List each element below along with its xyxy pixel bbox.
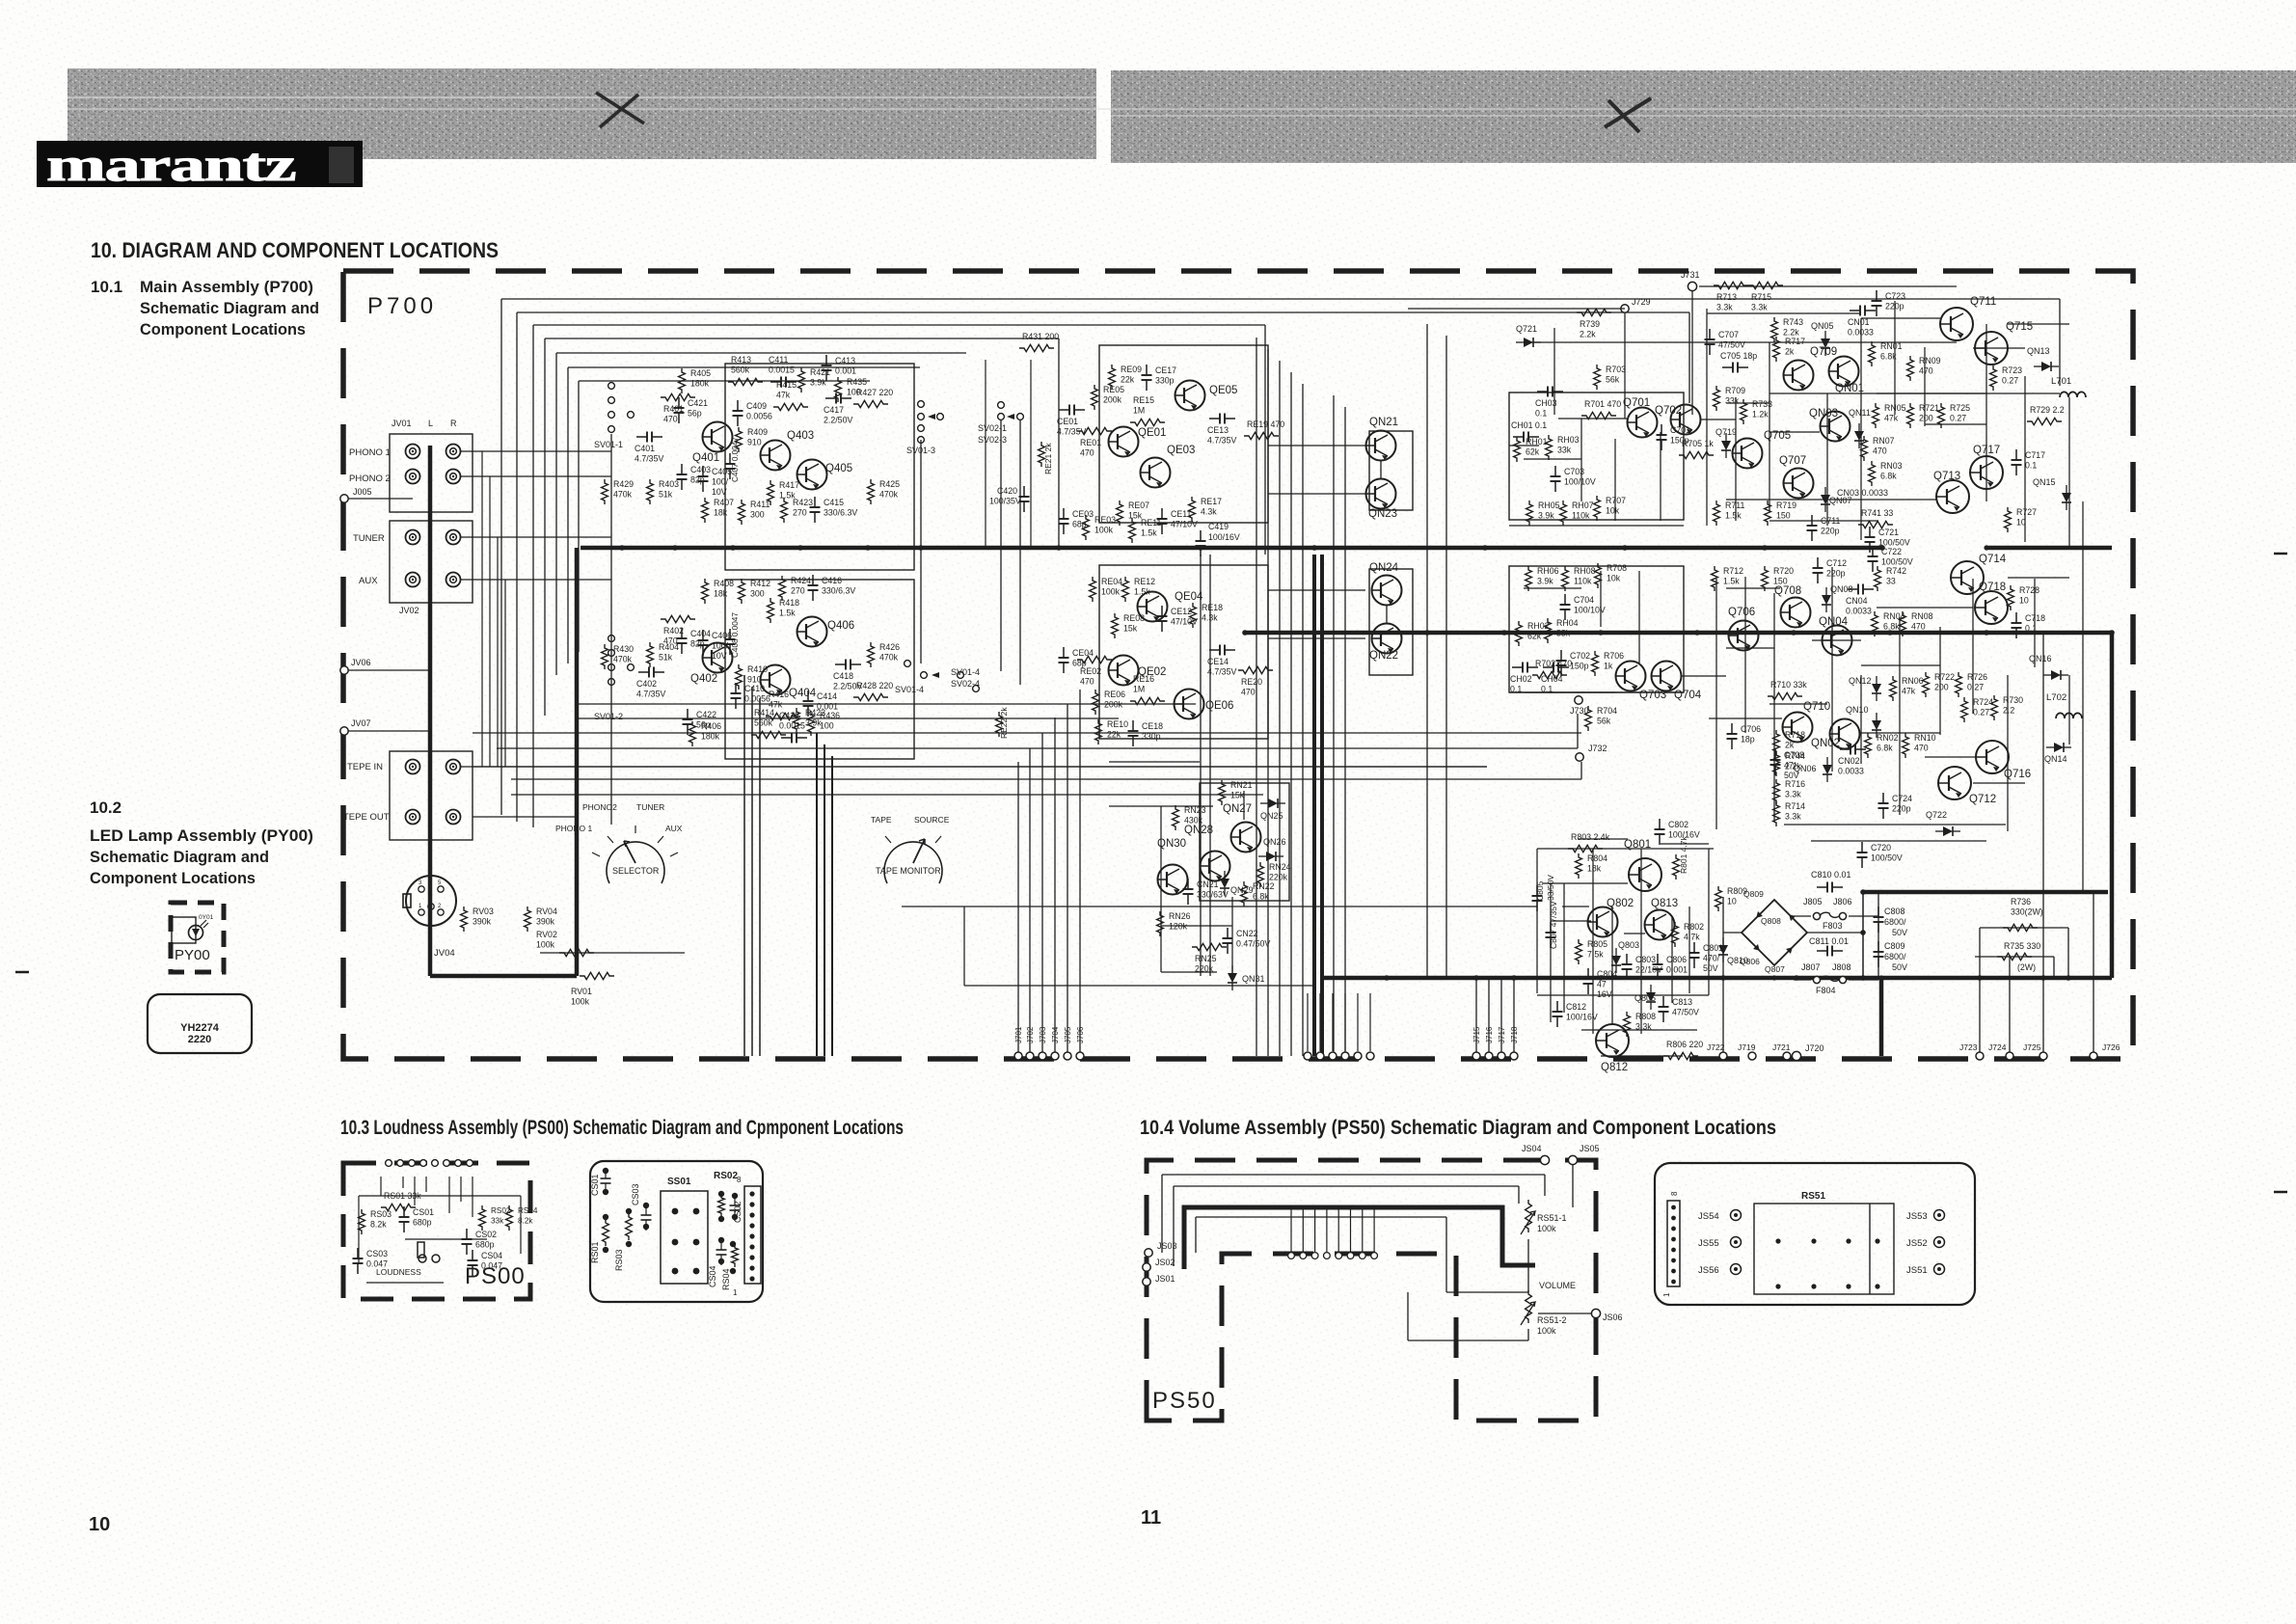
svg-text:marantz: marantz — [46, 138, 296, 190]
svg-text:47k: 47k — [1902, 687, 1916, 696]
svg-text:10V: 10V — [712, 651, 727, 661]
junction — [1511, 975, 1517, 981]
svg-text:330/63V: 330/63V — [1197, 890, 1229, 900]
resistor RE04 — [1090, 577, 1123, 602]
svg-text:RN26: RN26 — [1169, 911, 1191, 921]
resistor R418 — [768, 598, 800, 623]
wire — [1196, 1216, 1446, 1218]
svg-text:SV01-2: SV01-2 — [594, 712, 623, 721]
resistor RH01 — [1514, 437, 1548, 462]
svg-text:C803: C803 — [1635, 955, 1656, 964]
svg-text:C409: C409 — [746, 401, 767, 411]
svg-text:F804: F804 — [1816, 986, 1836, 995]
wire — [1536, 849, 1538, 993]
wire — [366, 1282, 444, 1284]
capacitor C812 — [1553, 1001, 1598, 1027]
svg-text:C810 0.01: C810 0.01 — [1811, 870, 1851, 880]
wire — [473, 766, 1487, 768]
capacitor C805 — [1532, 875, 1556, 911]
resistor R404 — [647, 642, 680, 667]
wire — [1079, 690, 1081, 1056]
resistor R744 — [1773, 751, 1806, 776]
svg-text:SELECTOR: SELECTOR — [612, 866, 660, 876]
transistor Q402 — [690, 643, 733, 686]
svg-text:47k: 47k — [776, 391, 791, 400]
capacitor C421 — [674, 397, 709, 423]
resistor RE12 — [1122, 577, 1156, 602]
svg-text:RN25: RN25 — [1195, 954, 1217, 963]
capacitor C702 — [1556, 650, 1591, 676]
resistor R727 — [2005, 507, 2038, 532]
svg-text:56k: 56k — [1597, 717, 1611, 726]
svg-text:C712: C712 — [1826, 558, 1847, 568]
capacitor C404 — [677, 628, 712, 654]
svg-text:Q718: Q718 — [1979, 582, 2006, 593]
svg-text:TUNER: TUNER — [636, 802, 664, 812]
svg-text:Q806: Q806 — [1740, 957, 1760, 966]
wire — [1925, 423, 1986, 425]
svg-text:0.1: 0.1 — [1535, 409, 1547, 419]
resistor R413 — [728, 355, 763, 386]
wire — [1290, 372, 1292, 1056]
power bus B2 thick — [1245, 631, 2112, 636]
muting control block outline — [1200, 783, 1289, 901]
connector J717 — [1498, 1026, 1506, 1060]
junction — [1598, 630, 1604, 636]
capacitor CS02cap pcb — [730, 1193, 741, 1221]
svg-text:Q404: Q404 — [789, 688, 817, 699]
resistor RE18 — [1190, 603, 1224, 628]
resistor R730 — [1991, 695, 2024, 720]
wire — [920, 440, 922, 663]
wire — [461, 450, 611, 452]
svg-text:430k: 430k — [1184, 816, 1203, 826]
svg-text:CE14: CE14 — [1207, 657, 1229, 666]
svg-text:47/50V: 47/50V — [1672, 1008, 1699, 1017]
resistor R704 — [1585, 706, 1618, 731]
svg-text:18k: 18k — [1587, 864, 1602, 874]
resistor R709 — [1714, 386, 1746, 411]
connector JS02 — [1143, 1258, 1175, 1271]
connector pin — [1366, 1052, 1374, 1060]
svg-text:R414: R414 — [754, 708, 774, 717]
rotary switch TAPE MONITOR — [871, 815, 950, 883]
resistor R715 — [1748, 282, 1783, 311]
RS51 pcb outline — [1655, 1163, 1975, 1305]
transistor QN30 — [1157, 838, 1188, 895]
wire — [1784, 824, 2006, 826]
diode QN08 — [1822, 584, 1853, 612]
resistor R710 — [1768, 680, 1807, 700]
capacitor CN22 — [1223, 928, 1271, 954]
resistor R424 — [779, 576, 812, 601]
connector pin — [1341, 1052, 1349, 1060]
svg-text:470/: 470/ — [1703, 954, 1720, 963]
svg-text:TEPE IN: TEPE IN — [347, 762, 383, 772]
wire — [2007, 675, 2009, 831]
svg-text:R725: R725 — [1950, 403, 1970, 413]
svg-text:RV02: RV02 — [536, 930, 557, 939]
svg-text:100/35V: 100/35V — [989, 497, 1021, 506]
wire — [1661, 843, 1709, 845]
junction — [1977, 975, 1983, 981]
svg-text:C723: C723 — [1885, 291, 1905, 301]
diode Q721 — [1516, 324, 1541, 347]
wire — [473, 816, 579, 818]
svg-text:R410: R410 — [747, 664, 768, 674]
svg-text:4.7/35V: 4.7/35V — [635, 454, 663, 464]
capacitor CH03 — [1535, 387, 1563, 419]
resistor RN10 — [1903, 733, 1936, 758]
potentiometer RS51-2 — [1521, 1290, 1567, 1336]
svg-text:Schematic Diagram and: Schematic Diagram and — [140, 299, 319, 317]
wire — [2053, 957, 2055, 978]
svg-text:Q809: Q809 — [1743, 889, 1764, 899]
wire — [1267, 349, 1269, 1056]
svg-text:100/10V: 100/10V — [1564, 477, 1596, 487]
svg-text:47/10V: 47/10V — [1171, 520, 1198, 529]
svg-text:C403: C403 — [690, 465, 711, 474]
diode Q803 — [1611, 940, 1639, 973]
svg-text:33k: 33k — [491, 1217, 504, 1226]
svg-text:QE01: QE01 — [1138, 427, 1166, 439]
resistor RE11 — [1129, 518, 1162, 543]
wire — [504, 580, 506, 767]
wire — [2082, 501, 2084, 892]
connector J703 — [1039, 1026, 1047, 1060]
wire — [1408, 308, 1625, 310]
resistor R708 — [1595, 563, 1628, 588]
capacitor CS04 pcb — [708, 1237, 727, 1287]
resistor R801 — [1673, 836, 1688, 880]
resistor R742 — [1875, 566, 1907, 591]
resistor RE21 — [1039, 442, 1053, 474]
svg-text:RS03: RS03 — [370, 1209, 392, 1219]
junction — [1984, 545, 1988, 550]
wire — [1580, 762, 1582, 779]
resistor RE20 — [1238, 666, 1273, 696]
capacitor C417 — [824, 393, 852, 425]
svg-text:JS04: JS04 — [1522, 1144, 1542, 1153]
capacitor CE04 — [1059, 647, 1094, 673]
resistor RE07 — [1117, 501, 1150, 526]
svg-text:(2W): (2W) — [2017, 962, 2036, 972]
wire — [1518, 1186, 1520, 1204]
wire — [358, 1196, 360, 1263]
svg-text:RE06: RE06 — [1104, 690, 1125, 699]
resistor R436 — [808, 711, 841, 736]
svg-text:AUX: AUX — [359, 576, 378, 586]
capacitor C803 — [1622, 954, 1663, 980]
wire — [1332, 993, 1334, 1051]
svg-text:Q403: Q403 — [787, 430, 814, 442]
YH2274 board outline — [148, 994, 252, 1053]
svg-text:10.4 Volume Assembly (PS50): 10.4 Volume Assembly (PS50) Schematic Di… — [1140, 1117, 1776, 1139]
svg-text:0.047: 0.047 — [366, 1259, 388, 1269]
transistor Q812 — [1596, 1024, 1629, 1073]
wire — [1580, 419, 1582, 501]
connector J721 — [1772, 1042, 1791, 1060]
loudness switch — [418, 1242, 440, 1262]
wire — [2034, 579, 2036, 667]
svg-text:RS51-1: RS51-1 — [1537, 1213, 1567, 1223]
svg-text:L701: L701 — [2051, 376, 2071, 387]
svg-text:QN14: QN14 — [2044, 754, 2067, 764]
svg-text:J805: J805 — [1803, 897, 1823, 907]
wire — [1691, 291, 1693, 415]
svg-text:J705: J705 — [1064, 1026, 1072, 1043]
svg-text:QN05: QN05 — [1811, 321, 1834, 331]
wire — [1973, 782, 2025, 784]
capacitor C412 — [779, 711, 807, 744]
wire — [2068, 675, 2070, 744]
svg-text:SV02-1: SV02-1 — [978, 423, 1007, 433]
transistor Q405 — [797, 460, 853, 490]
wire — [1173, 1186, 1175, 1266]
connector J719 — [1738, 1042, 1756, 1060]
svg-text:4.7/35V: 4.7/35V — [636, 690, 665, 699]
junction — [865, 545, 871, 551]
svg-text:62k: 62k — [1527, 632, 1542, 641]
capacitor CS04 — [468, 1250, 503, 1276]
svg-text:10.1: 10.1 — [91, 278, 122, 296]
resistor RE09 — [1109, 365, 1143, 390]
connector JS03 — [1145, 1241, 1177, 1257]
resistor R428 — [853, 681, 893, 701]
svg-text:RE03: RE03 — [1094, 515, 1116, 525]
svg-text:200k: 200k — [1103, 395, 1122, 405]
transistor Q717 — [1970, 445, 2003, 489]
svg-text:100k: 100k — [536, 940, 555, 950]
svg-text:150: 150 — [1773, 577, 1788, 586]
wire — [1638, 571, 1640, 663]
svg-text:JS51: JS51 — [1906, 1265, 1928, 1276]
svg-text:PHONO 2: PHONO 2 — [349, 474, 391, 484]
svg-text:2k: 2k — [1785, 347, 1795, 357]
svg-text:J706: J706 — [1076, 1026, 1085, 1043]
svg-text:QE05: QE05 — [1209, 385, 1237, 396]
svg-text:L: L — [428, 419, 433, 428]
svg-text:470: 470 — [1914, 744, 1929, 753]
junction — [1482, 545, 1488, 551]
svg-text:R413: R413 — [731, 355, 751, 365]
svg-text:PHONO 1: PHONO 1 — [349, 447, 391, 458]
capacitor C701 — [1657, 424, 1691, 450]
power bus B3 thick — [1322, 976, 2112, 981]
resistor RV01 — [571, 972, 614, 1006]
wire — [1972, 579, 1974, 714]
wire — [1509, 525, 1684, 527]
svg-text:680p: 680p — [413, 1218, 432, 1228]
wire — [1488, 978, 1490, 1056]
svg-text:R405: R405 — [690, 368, 711, 378]
connector J715 — [1472, 1026, 1481, 1060]
transistor QN27 — [1223, 803, 1261, 853]
wire — [1773, 593, 1775, 822]
connector JV06 — [340, 658, 371, 674]
connector pin — [1354, 1052, 1362, 1060]
svg-text:R409: R409 — [747, 427, 768, 437]
resistor R733 — [1741, 399, 1773, 424]
LED lamp JY01 — [172, 914, 214, 943]
resistor RH04 — [1545, 618, 1579, 643]
junction — [1310, 1205, 1314, 1210]
resistor RE19 — [1244, 420, 1284, 440]
svg-text:RH08: RH08 — [1574, 566, 1596, 576]
svg-text:100k: 100k — [1537, 1224, 1556, 1233]
wire — [1578, 838, 1628, 840]
svg-text:QN21: QN21 — [1369, 417, 1398, 428]
diode QN06 — [1794, 757, 1832, 782]
fuse F803 — [1803, 897, 1852, 931]
resistor RS01 pcb — [590, 1214, 608, 1263]
svg-text:4.7k: 4.7k — [1684, 933, 1700, 942]
junction — [1984, 630, 1989, 636]
junction — [1887, 630, 1893, 636]
input jack board JV02 outline — [390, 521, 473, 603]
connector JS52 — [1906, 1237, 1945, 1250]
resistor R421 — [798, 367, 831, 392]
capacitor C406 — [698, 630, 733, 661]
wire — [1524, 341, 1957, 343]
svg-text:L702: L702 — [2046, 692, 2066, 703]
svg-text:R705 1k: R705 1k — [1682, 439, 1714, 448]
resistor RE01 — [1077, 427, 1112, 457]
resistor RN07 — [1861, 436, 1895, 461]
wire — [1019, 420, 1021, 685]
capacitor C724 — [1878, 793, 1913, 819]
svg-text:Q406: Q406 — [827, 620, 854, 632]
resistor R722 — [1923, 672, 1956, 697]
resistor RH07 — [1560, 501, 1594, 526]
equalizer block outline lower — [1099, 565, 1268, 739]
svg-text:300: 300 — [750, 589, 765, 599]
wire — [1264, 325, 1266, 555]
svg-text:100/: 100/ — [712, 477, 729, 487]
svg-text:J726: J726 — [2102, 1042, 2120, 1052]
svg-text:6800/: 6800/ — [1884, 917, 1906, 927]
wire — [1475, 978, 1477, 1056]
wire — [2068, 397, 2070, 548]
wire — [348, 498, 413, 500]
junction — [797, 545, 803, 551]
svg-text:QN02: QN02 — [1811, 738, 1840, 749]
power bus B1 right segment — [1986, 546, 2112, 551]
switch SV01-3 — [906, 401, 943, 455]
svg-text:Q722: Q722 — [1926, 810, 1947, 820]
svg-text:910: 910 — [747, 438, 762, 447]
svg-text:330/6.3V: 330/6.3V — [822, 586, 855, 596]
wire — [533, 324, 1265, 326]
transistor Q813 — [1645, 898, 1679, 940]
svg-text:1M: 1M — [1133, 406, 1145, 416]
wire — [402, 1177, 404, 1188]
svg-text:CE12: CE12 — [1171, 607, 1192, 616]
svg-text:330(2W): 330(2W) — [2011, 907, 2043, 917]
svg-text:F803: F803 — [1823, 921, 1843, 931]
svg-text:0.001: 0.001 — [817, 702, 838, 712]
resistor R411 — [739, 500, 770, 525]
svg-text:RS51: RS51 — [1801, 1191, 1825, 1202]
transistor QN21 — [1366, 417, 1399, 461]
svg-text:330p: 330p — [1155, 376, 1175, 386]
wire — [1924, 347, 1926, 426]
svg-text:220p: 220p — [1892, 804, 1911, 814]
connector JS56 — [1698, 1264, 1742, 1277]
resistor R716 — [1773, 779, 1806, 804]
resistor R713 — [1714, 282, 1748, 311]
wire — [1279, 361, 1281, 1056]
wire — [1862, 892, 1864, 980]
wire — [511, 778, 1581, 780]
svg-text:100k: 100k — [1101, 587, 1121, 597]
svg-text:RN02: RN02 — [1877, 733, 1899, 743]
svg-text:QN12: QN12 — [1849, 676, 1872, 686]
svg-text:RN09: RN09 — [1919, 356, 1941, 365]
svg-text:10.3 Loudness Assembly (PS00: 10.3 Loudness Assembly (PS00) Schematic … — [340, 1117, 904, 1139]
junction — [1720, 975, 1726, 981]
RCA jack — [446, 760, 461, 774]
svg-text:AUX: AUX — [665, 824, 683, 833]
svg-text:390k: 390k — [473, 917, 492, 927]
resistor RN23 — [1173, 805, 1206, 830]
capacitor C718 — [2012, 612, 2046, 638]
svg-text:SV01-4: SV01-4 — [895, 685, 924, 694]
wire — [1581, 1029, 1697, 1031]
wire — [1660, 432, 1661, 521]
wire — [1577, 714, 1579, 748]
equalizer block outline upper — [1099, 345, 1268, 523]
RS51 switch outline — [1754, 1204, 1894, 1294]
svg-text:C720: C720 — [1871, 843, 1891, 853]
svg-text:7.5k: 7.5k — [1587, 950, 1604, 960]
margin mark right lower — [2274, 1191, 2287, 1194]
wire — [1513, 978, 1515, 1056]
connector J729 — [1621, 297, 1651, 312]
capacitor CS02 — [462, 1229, 498, 1255]
junction — [1622, 545, 1627, 550]
svg-text:SV01-4: SV01-4 — [951, 667, 980, 677]
svg-text:CS03: CS03 — [631, 1183, 640, 1205]
svg-text:R407: R407 — [714, 498, 734, 507]
svg-text:RH04: RH04 — [1556, 618, 1579, 628]
svg-text:680p: 680p — [475, 1240, 495, 1250]
svg-text:J719: J719 — [1738, 1042, 1756, 1052]
svg-text:1M: 1M — [1133, 685, 1145, 694]
svg-text:C410: C410 — [744, 684, 765, 693]
transistor Q701 — [1623, 397, 1658, 438]
svg-text:RN07: RN07 — [1873, 436, 1895, 446]
svg-text:100k: 100k — [571, 997, 590, 1007]
connector JS53 — [1906, 1210, 1945, 1223]
svg-text:JV01: JV01 — [392, 419, 412, 428]
svg-text:J731: J731 — [1681, 270, 1700, 280]
wire — [544, 338, 546, 716]
wire — [964, 985, 1314, 987]
diode QN25 — [1260, 798, 1285, 821]
diode QN29 — [1220, 871, 1254, 896]
wire — [751, 687, 753, 1056]
svg-text:RE04: RE04 — [1101, 577, 1122, 586]
bus riser right thick — [2110, 633, 2115, 978]
svg-text:QN26: QN26 — [1263, 837, 1286, 847]
capacitor CS03 — [353, 1248, 389, 1274]
svg-text:220p: 220p — [1826, 569, 1846, 579]
capacitor CE12 — [1157, 606, 1199, 632]
svg-text:270: 270 — [793, 508, 807, 518]
wire — [461, 766, 1487, 768]
volume bus thick — [1184, 1207, 1535, 1269]
